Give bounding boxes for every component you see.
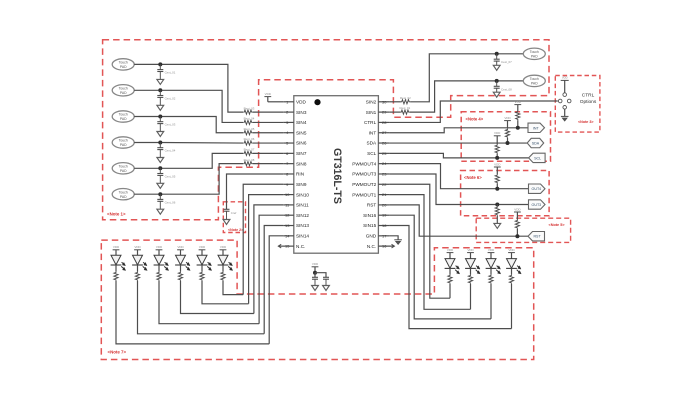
svg-text:Rext_06: Rext_06 bbox=[244, 137, 255, 141]
touch pad P2 bbox=[112, 85, 134, 96]
pin 21 PWMOUT1 stub bbox=[378, 194, 389, 196]
wire Rext_04 to pin 3 bbox=[253, 121, 284, 123]
svg-text:VDD: VDD bbox=[177, 245, 184, 249]
ground for C1 bbox=[312, 286, 319, 291]
LED D2 bbox=[133, 255, 143, 265]
svg-text:PWMOUT2: PWMOUT2 bbox=[352, 182, 376, 187]
resistor Rext_03 bbox=[243, 110, 252, 114]
wire pad P5 to node bbox=[134, 167, 160, 169]
junction node OUT4 bbox=[495, 187, 499, 191]
pin 23 PWMOUT3 stub bbox=[378, 173, 389, 175]
resistor Rext_02 on SIN2 bbox=[401, 100, 410, 104]
wire SIN11 pin 11 to LED rail bbox=[254, 205, 283, 314]
pin 25 SCL stub bbox=[378, 152, 389, 154]
svg-text:SIN9: SIN9 bbox=[296, 182, 307, 187]
svg-text:VDD: VDD bbox=[134, 245, 141, 249]
resistor R_led4 bbox=[178, 272, 182, 281]
svg-text:PAD: PAD bbox=[531, 82, 538, 86]
junction node pad P1 bbox=[158, 62, 162, 66]
wire SIN16 pin 19 to LED rail bbox=[389, 215, 491, 319]
wire VDD to pin1 bbox=[268, 101, 283, 103]
wire LED D7 down bbox=[449, 284, 451, 298]
junction node SDA bbox=[506, 141, 510, 145]
svg-text:SCL: SCL bbox=[367, 151, 377, 156]
svg-text:PWMOUT4: PWMOUT4 bbox=[352, 161, 376, 166]
wire LED D4 to SIN11 bbox=[181, 281, 254, 314]
pin 22 PWMOUT2 stub bbox=[378, 183, 389, 185]
svg-text:SIN11: SIN11 bbox=[296, 203, 309, 208]
LED D10 bbox=[507, 259, 517, 269]
svg-text:Cext_05: Cext_05 bbox=[165, 175, 176, 179]
svg-text:SIN12: SIN12 bbox=[296, 213, 309, 218]
pin 15 N.C. stub bbox=[279, 245, 294, 247]
pin 30 SIN2 stub bbox=[378, 101, 389, 103]
svg-text:SIN10: SIN10 bbox=[296, 192, 309, 197]
junction node pad P8 bbox=[495, 79, 499, 83]
svg-text:Cext_08: Cext_08 bbox=[501, 87, 512, 91]
pin 24 PWMOUT4 stub bbox=[378, 163, 389, 165]
svg-text:<Note 2>: <Note 2> bbox=[228, 228, 243, 232]
pin 28 CTRL stub bbox=[378, 121, 389, 123]
svg-text:GT316L-TS: GT316L-TS bbox=[331, 148, 343, 204]
svg-text:PWMOUT1: PWMOUT1 bbox=[352, 192, 376, 197]
ground for Cext_05 bbox=[157, 183, 164, 188]
svg-text:16: 16 bbox=[382, 244, 386, 249]
pin 3 SIN4 stub bbox=[283, 121, 294, 123]
svg-text:VDD: VDD bbox=[113, 245, 120, 249]
ground for Cext_03 bbox=[157, 132, 164, 137]
svg-text:CTRL: CTRL bbox=[364, 120, 377, 125]
svg-text:3: 3 bbox=[286, 120, 288, 125]
svg-text:25: 25 bbox=[382, 151, 386, 156]
svg-text:28: 28 bbox=[382, 120, 386, 125]
svg-text:1: 1 bbox=[286, 99, 288, 104]
note box Note7 outline (LED drive region) bbox=[101, 240, 533, 359]
svg-text:PAD: PAD bbox=[120, 195, 127, 199]
wire SIN2 pin 30 to pad bbox=[389, 101, 401, 103]
svg-text:VDD: VDD bbox=[562, 76, 568, 80]
capacitor C2 decoupling bbox=[323, 276, 329, 278]
svg-text:VDD: VDD bbox=[296, 100, 307, 105]
capacitor C1 decoupling bbox=[312, 276, 318, 278]
svg-text:VDD: VDD bbox=[488, 248, 495, 252]
svg-text:SIN3: SIN3 bbox=[296, 110, 307, 115]
wire LED D3 to SIN12 bbox=[159, 281, 259, 324]
pin 1 index dot bbox=[314, 99, 320, 105]
ground for Cext_06 bbox=[157, 209, 164, 214]
svg-text:Rext_01: Rext_01 bbox=[400, 106, 411, 110]
resistor R_led10 bbox=[509, 275, 513, 284]
svg-text:<Note 6>: <Note 6> bbox=[464, 175, 482, 180]
svg-text:VDD: VDD bbox=[199, 245, 206, 249]
wire CTRL pin 28 to options bbox=[389, 101, 557, 122]
wire SDA pin 26 bbox=[389, 142, 527, 144]
LED D9 bbox=[486, 259, 496, 269]
svg-text:Touch: Touch bbox=[119, 113, 128, 117]
svg-text:<Note 1>: <Note 1> bbox=[107, 212, 126, 217]
svg-text:VDD: VDD bbox=[508, 248, 515, 252]
svg-text:9: 9 bbox=[286, 182, 288, 187]
svg-text:N.C.: N.C. bbox=[296, 244, 305, 249]
wire SIN10 pin 10 to LED rail bbox=[249, 195, 284, 304]
svg-text:Touch: Touch bbox=[119, 87, 128, 91]
note box Note1 outline (touch pad network region) bbox=[103, 40, 549, 220]
wire LED D6 to SIN9 bbox=[223, 281, 243, 295]
svg-text:Rext_03: Rext_03 bbox=[244, 106, 255, 110]
svg-text:Touch: Touch bbox=[530, 50, 539, 54]
wire LED D5 to SIN10 bbox=[202, 281, 249, 304]
pin 7 SIN8 stub bbox=[283, 163, 294, 165]
svg-text:VDD: VDD bbox=[494, 162, 501, 166]
wire PWMOUT1 pin 21 to LED rail bbox=[389, 195, 470, 310]
svg-text:SIN8: SIN8 bbox=[296, 161, 307, 166]
wire PWMOUT2 pin 22 to LED rail bbox=[389, 184, 450, 298]
capacitor Cext_07 bbox=[496, 54, 498, 59]
svg-text:VDD: VDD bbox=[504, 116, 511, 120]
pin 9 SIN9 stub bbox=[283, 183, 294, 185]
svg-text:PAD: PAD bbox=[120, 169, 127, 173]
svg-text:PAD: PAD bbox=[120, 91, 127, 95]
wire GND pin 17 bbox=[389, 236, 398, 240]
svg-text:Touch: Touch bbox=[530, 77, 539, 81]
wire LED D9 down bbox=[490, 284, 492, 319]
ground for Cext_02 bbox=[157, 105, 164, 110]
svg-text:<Note 7>: <Note 7> bbox=[108, 350, 127, 355]
pin 5 SIN6 stub bbox=[283, 142, 294, 144]
pin 14 SIN14 stub bbox=[283, 235, 294, 237]
capacitor Cext_05 bbox=[159, 168, 161, 173]
svg-text:SIN14: SIN14 bbox=[296, 234, 309, 239]
pin 19 SIN16 stub bbox=[378, 214, 389, 216]
svg-text:N.C.: N.C. bbox=[367, 244, 376, 249]
svg-text:OUT3: OUT3 bbox=[532, 203, 542, 207]
svg-text:INT: INT bbox=[369, 130, 377, 135]
wire pad P2 to node bbox=[134, 89, 160, 91]
svg-text:<Note 3>: <Note 3> bbox=[578, 120, 594, 124]
svg-text:22: 22 bbox=[382, 182, 386, 187]
LED D8 bbox=[466, 259, 476, 269]
wire SIN14 pin 14 to LED rail bbox=[269, 236, 283, 344]
svg-text:VDD: VDD bbox=[265, 92, 272, 96]
svg-text:CTRL: CTRL bbox=[582, 93, 595, 99]
wire SIN13 pin 13 to LED rail bbox=[264, 226, 283, 334]
pin 11 SIN11 stub bbox=[283, 204, 294, 206]
touch pad P4 bbox=[112, 137, 134, 148]
svg-text:29: 29 bbox=[382, 110, 386, 115]
svg-text:SIN15: SIN15 bbox=[363, 223, 376, 228]
ground for Cext_01 bbox=[157, 79, 164, 84]
wire RST pin 20 bbox=[389, 205, 528, 236]
wire Rext_07 to pin 6 bbox=[253, 152, 284, 154]
pin 8 RIN stub bbox=[283, 173, 294, 175]
ground option for CTRL bbox=[564, 109, 566, 116]
svg-text:VDD: VDD bbox=[514, 207, 521, 211]
svg-text:7: 7 bbox=[286, 161, 288, 166]
svg-text:19: 19 bbox=[382, 213, 386, 218]
pin 6 SIN7 stub bbox=[283, 152, 294, 154]
connector OUT3 bbox=[529, 200, 546, 209]
svg-text:VDD: VDD bbox=[220, 245, 227, 249]
resistor R_led2 bbox=[135, 272, 139, 281]
svg-text:GND: GND bbox=[366, 234, 377, 239]
svg-text:VDD: VDD bbox=[467, 248, 474, 252]
svg-text:Rext_05: Rext_05 bbox=[244, 127, 255, 131]
capacitor Cref on RIN bbox=[224, 208, 230, 210]
touch pad P7 bbox=[523, 48, 545, 59]
CTRL options jumper bbox=[558, 99, 562, 103]
svg-text:6: 6 bbox=[286, 151, 288, 156]
svg-text:VDD: VDD bbox=[515, 100, 522, 104]
wire Rext_06 to pin 5 bbox=[253, 142, 284, 144]
junction node pad P5 bbox=[158, 166, 162, 170]
junction node decoupling bbox=[313, 271, 317, 275]
wire decoupling branch bbox=[315, 273, 326, 278]
connector SDA bbox=[527, 138, 544, 147]
ground for C2 bbox=[323, 286, 330, 291]
note box Note5 outline (RST pull-up) bbox=[476, 218, 570, 242]
pin 10 SIN10 stub bbox=[283, 194, 294, 196]
svg-text:Cext_02: Cext_02 bbox=[165, 97, 176, 101]
svg-text:21: 21 bbox=[382, 192, 386, 197]
LED D3 bbox=[154, 255, 164, 265]
svg-text:Options: Options bbox=[580, 99, 597, 105]
capacitor Cext_06 bbox=[159, 194, 161, 199]
IC U1 GT316L-TS body bbox=[294, 96, 379, 254]
resistor Rext_07 bbox=[243, 151, 252, 155]
ground at GND pin bbox=[394, 239, 402, 241]
touch pad P5 bbox=[112, 163, 134, 174]
wire INT pin 27 bbox=[389, 128, 528, 133]
svg-text:SIN16: SIN16 bbox=[363, 213, 376, 218]
wire LED D10 down bbox=[511, 284, 513, 329]
pin 26 SDA stub bbox=[378, 142, 389, 144]
ground for R_out3 bbox=[494, 223, 501, 228]
junction node SCL bbox=[495, 156, 499, 160]
svg-text:SIN1: SIN1 bbox=[366, 110, 377, 115]
pin 4 SIN5 stub bbox=[283, 132, 294, 134]
wire pad P4 to node bbox=[134, 142, 160, 144]
svg-text:PAD: PAD bbox=[120, 143, 127, 147]
svg-text:SDA: SDA bbox=[367, 141, 378, 146]
svg-text:VDD: VDD bbox=[494, 131, 501, 135]
LED D5 bbox=[197, 255, 207, 265]
touch pad P3 bbox=[112, 111, 134, 122]
connector OUT4 bbox=[529, 184, 546, 193]
resistor R_led5 bbox=[200, 272, 204, 281]
svg-text:13: 13 bbox=[285, 223, 289, 228]
note box Note3 outline (CTRL options) bbox=[555, 76, 600, 133]
svg-text:Cext_06: Cext_06 bbox=[165, 200, 176, 204]
junction node OUT3 bbox=[495, 203, 499, 207]
svg-text:8: 8 bbox=[286, 171, 288, 176]
svg-text:Rext_04: Rext_04 bbox=[244, 117, 255, 121]
junction node pad P2 bbox=[158, 88, 162, 92]
pin 12 SIN12 stub bbox=[283, 214, 294, 216]
svg-text:SDA: SDA bbox=[532, 142, 540, 146]
pin 13 SIN13 stub bbox=[283, 225, 294, 227]
svg-text:SIN2: SIN2 bbox=[366, 100, 377, 105]
resistor R_led3 bbox=[157, 272, 161, 281]
svg-text:PWMOUT3: PWMOUT3 bbox=[352, 172, 376, 177]
resistor Rext_04 bbox=[243, 120, 252, 124]
connector INT bbox=[528, 123, 545, 132]
svg-text:23: 23 bbox=[382, 171, 386, 176]
resistor Rext_05 bbox=[243, 131, 252, 135]
wire Rext_08 to pin 7 bbox=[253, 163, 284, 165]
wire LED D2 to SIN13 bbox=[138, 281, 265, 334]
svg-text:2: 2 bbox=[286, 110, 288, 115]
LED D7 bbox=[445, 259, 455, 269]
resistor Rext_01 on SIN1 bbox=[400, 110, 409, 114]
pin 27 INT stub bbox=[378, 132, 389, 134]
touch pad P6 bbox=[112, 189, 134, 200]
note box Note6 outline (PWMOUT pull resistors) bbox=[461, 171, 549, 216]
pin 17 GND stub bbox=[378, 235, 389, 237]
wire SIN12 pin 12 to LED rail bbox=[259, 215, 283, 323]
resistor R_led9 bbox=[489, 275, 493, 284]
svg-text:<Note 5>: <Note 5> bbox=[549, 223, 566, 227]
svg-text:RST: RST bbox=[533, 235, 541, 239]
LED D6 bbox=[218, 255, 228, 265]
svg-text:SIN7: SIN7 bbox=[296, 151, 307, 156]
pin 29 SIN1 stub bbox=[378, 111, 389, 113]
capacitor Cext_03 bbox=[159, 117, 161, 122]
svg-text:18: 18 bbox=[382, 223, 386, 228]
svg-text:Touch: Touch bbox=[119, 190, 128, 194]
resistor Rext_08 bbox=[243, 162, 252, 166]
svg-text:RIN: RIN bbox=[296, 172, 304, 177]
wire SIN9 pin 9 to LED rail bbox=[243, 184, 283, 294]
wire SIN1 pin 29 to pad bbox=[389, 111, 400, 113]
svg-text:Rext_07: Rext_07 bbox=[244, 148, 255, 152]
resistor R_led8 bbox=[468, 275, 472, 284]
svg-text:INT: INT bbox=[533, 126, 540, 130]
pin 2 SIN3 stub bbox=[283, 111, 294, 113]
note box Note4 outline (I2C pull-up resistors) bbox=[461, 112, 550, 162]
svg-text:Rext_08: Rext_08 bbox=[244, 158, 255, 162]
svg-text:RST: RST bbox=[367, 203, 377, 208]
wire LED D8 down bbox=[470, 284, 472, 310]
wire pad P6 to node bbox=[134, 193, 160, 195]
resistor R_led7 bbox=[448, 275, 452, 284]
svg-text:SIN5: SIN5 bbox=[296, 130, 307, 135]
wire Rext_05 to pin 4 bbox=[253, 132, 284, 134]
touch pad P8 bbox=[523, 75, 545, 86]
ground for Cref bbox=[223, 220, 230, 225]
capacitor Cext_02 bbox=[159, 90, 161, 95]
pin 18 SIN15 stub bbox=[378, 225, 389, 227]
junction node pad P7 bbox=[495, 52, 499, 56]
svg-text:Cext_03: Cext_03 bbox=[165, 123, 176, 127]
svg-text:PAD: PAD bbox=[120, 65, 127, 69]
junction node pad P6 bbox=[158, 192, 162, 196]
resistor R_out3 pull-down bbox=[496, 205, 498, 207]
svg-text:PAD: PAD bbox=[531, 54, 538, 58]
ground for Cext_07 bbox=[493, 65, 500, 70]
wire LED D1 to SIN14 bbox=[116, 281, 269, 344]
svg-text:SIN6: SIN6 bbox=[296, 141, 307, 146]
svg-text:Rext_02: Rext_02 bbox=[400, 96, 411, 100]
resistor Rext_06 bbox=[243, 141, 252, 145]
junction node pad P3 bbox=[158, 115, 162, 119]
svg-text:VDD: VDD bbox=[156, 245, 163, 249]
junction node pad P4 bbox=[158, 141, 162, 145]
capacitor Cext_08 bbox=[496, 81, 498, 86]
wire PWMOUT4 pin 24 bbox=[389, 164, 528, 189]
touch pad P1 bbox=[112, 59, 134, 70]
svg-text:27: 27 bbox=[382, 130, 386, 135]
svg-text:PAD: PAD bbox=[120, 117, 127, 121]
wire RIN pin 8 bbox=[227, 174, 284, 209]
wire SIN15 pin 18 to LED rail bbox=[389, 226, 511, 329]
svg-text:SIN13: SIN13 bbox=[296, 223, 309, 228]
note box Note2 outline (RIN reference capacitor) bbox=[223, 202, 245, 233]
svg-text:VDD: VDD bbox=[447, 248, 454, 252]
capacitor Cext_04 bbox=[159, 143, 161, 148]
svg-text:26: 26 bbox=[382, 141, 386, 146]
pin 16 N.C. stub bbox=[378, 245, 394, 247]
svg-text:12: 12 bbox=[285, 213, 289, 218]
junction node INT bbox=[516, 126, 520, 130]
svg-text:SCL: SCL bbox=[534, 156, 541, 160]
connector RST bbox=[528, 232, 545, 241]
svg-text:VDD: VDD bbox=[312, 262, 319, 266]
ground for Cext_04 bbox=[157, 158, 164, 163]
svg-text:OUT4: OUT4 bbox=[532, 187, 542, 191]
LED D1 bbox=[111, 255, 121, 265]
svg-text:Cext_04: Cext_04 bbox=[165, 149, 176, 153]
svg-text:Cext_07: Cext_07 bbox=[501, 60, 512, 64]
pin 20 RST stub bbox=[378, 204, 389, 206]
capacitor Cext_01 bbox=[159, 64, 161, 69]
wire pad P1 to node bbox=[134, 63, 160, 65]
svg-text:11: 11 bbox=[285, 202, 289, 207]
LED D4 bbox=[176, 255, 186, 265]
wire PWMOUT3 pin 23 bbox=[389, 174, 528, 205]
pin 1 VDD stub bbox=[283, 101, 294, 103]
junction node RST bbox=[515, 234, 519, 238]
wire pad P3 to node bbox=[134, 116, 160, 118]
wire SCL pin 25 bbox=[389, 153, 528, 158]
svg-text:Cext_01: Cext_01 bbox=[165, 71, 176, 75]
svg-text:17: 17 bbox=[382, 233, 386, 238]
svg-text:SIN4: SIN4 bbox=[296, 120, 307, 125]
resistor R_led6 bbox=[221, 272, 225, 281]
svg-text:Touch: Touch bbox=[119, 61, 128, 65]
svg-text:Touch: Touch bbox=[119, 139, 128, 143]
svg-text:Cref: Cref bbox=[231, 211, 237, 215]
svg-text:<Note 4>: <Note 4> bbox=[466, 117, 484, 122]
svg-text:5: 5 bbox=[286, 141, 288, 146]
svg-text:Touch: Touch bbox=[119, 165, 128, 169]
connector SCL bbox=[529, 153, 546, 162]
ground for Cext_08 bbox=[493, 92, 500, 97]
wire Rext_03 to pin 2 bbox=[253, 111, 284, 113]
resistor R_led1 bbox=[114, 272, 118, 281]
svg-text:15: 15 bbox=[285, 244, 289, 249]
